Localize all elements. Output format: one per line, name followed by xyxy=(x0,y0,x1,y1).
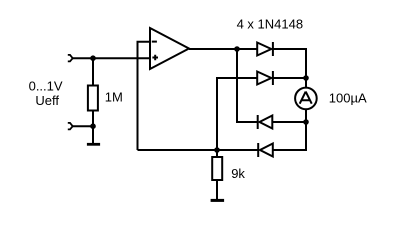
wire: right rail down to ammeter xyxy=(305,78,307,88)
svg-text:9k: 9k xyxy=(231,166,245,181)
resistor R2 body xyxy=(212,157,222,180)
wire: R1 top lead xyxy=(92,58,94,85)
wire: ammeter to D3 junction xyxy=(305,109,307,122)
svg-text:1M: 1M xyxy=(105,90,123,105)
svg-text:100µA: 100µA xyxy=(329,90,367,105)
wire: D3 base to right rail xyxy=(272,121,306,123)
ammeter A glyph xyxy=(300,92,312,104)
input terminal J2 (bottom) xyxy=(68,123,73,130)
wire: R1 bottom lead down to ground xyxy=(92,111,94,144)
wire: top input to op-amp non-inverting input xyxy=(73,57,150,59)
wire: R2 top lead xyxy=(216,150,218,157)
resistor R1 body xyxy=(88,86,98,111)
node: right rail / D2 junction xyxy=(303,75,309,81)
node: output junction xyxy=(234,46,240,52)
input terminal J1 (top) xyxy=(68,55,73,62)
wire: D4 base to right rail corner xyxy=(273,122,306,150)
label input voltage 0...1V Ueff xyxy=(29,79,63,109)
ground (input side) xyxy=(87,143,100,146)
diode D2 xyxy=(257,71,273,85)
wire: bottom input to junction xyxy=(73,125,93,127)
wire: R2 bottom lead xyxy=(216,180,218,199)
node: top input / R1 junction xyxy=(90,55,96,61)
diode D3 xyxy=(258,115,273,129)
svg-text:Ueff: Ueff xyxy=(35,93,59,108)
wire: bottom feedback rail to D4 xyxy=(138,149,259,151)
wire: D2 anode rail down to R2 junction xyxy=(217,78,257,150)
svg-text:0...1V: 0...1V xyxy=(29,79,63,94)
wire: output junction down to D3 cathode xyxy=(237,49,258,122)
ground (R2 side) xyxy=(211,199,225,202)
wire: D1 cathode to right rail corner xyxy=(273,49,306,78)
wire: op-amp output to D1 anode xyxy=(189,48,257,50)
diode D1 xyxy=(257,42,273,56)
op-amp inverting input minus sign xyxy=(152,41,157,43)
ammeter M1 xyxy=(295,88,317,110)
op-amp U1 xyxy=(150,28,189,69)
op-amp non-inverting input plus sign xyxy=(152,55,158,61)
wire: D2 cathode to right rail xyxy=(273,77,306,79)
svg-text:4 x 1N4148: 4 x 1N4148 xyxy=(237,16,304,31)
node: right rail / D3 junction xyxy=(303,119,309,125)
node: R2 / feedback junction xyxy=(214,147,220,153)
node: bottom input junction xyxy=(90,123,96,129)
diode D4 xyxy=(258,143,273,157)
wire: feedback from bottom rail up to inverting input xyxy=(138,42,151,150)
